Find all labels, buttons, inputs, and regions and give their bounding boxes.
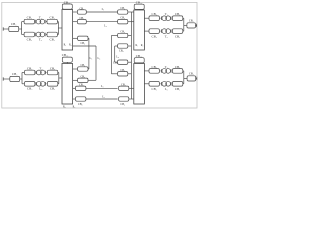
- wire R4 to branch node: [144, 70, 149, 72]
- capacitor CB10 bottom-left: [62, 57, 72, 62]
- capacitor CB6 topleft-1: [77, 10, 86, 14]
- capacitor CB6 botright-1: [119, 86, 129, 90]
- svg-text:L₃: L₃: [101, 84, 104, 88]
- resonator R4 body: [134, 64, 145, 105]
- svg-text:CB₆: CB₆: [120, 103, 125, 106]
- wire R1 tap L1: [73, 11, 78, 13]
- svg-text:L₄: L₄: [102, 95, 105, 99]
- capacitor CB10 top-left: [62, 4, 72, 9]
- wire rung L2 to bus: [128, 21, 134, 23]
- wire top-right branch2 out: [183, 30, 184, 32]
- line L1: [86, 11, 117, 13]
- wire linkB to R3: [73, 79, 78, 81]
- svg-text:CB₄: CB₄: [175, 87, 180, 91]
- capacitor CB3 output bottom: [187, 76, 196, 81]
- line L4: [86, 98, 118, 100]
- wire bottom-right branch1 a: [159, 70, 160, 72]
- capacitor CB9 linkB bottom: [78, 78, 88, 82]
- svg-text:CB₅: CB₅: [50, 66, 55, 70]
- svg-text:CB₁₀: CB₁₀: [136, 54, 142, 58]
- wire to port2: [196, 24, 197, 26]
- svg-text:CB₉: CB₉: [80, 75, 85, 78]
- line L2: [86, 21, 117, 23]
- svg-text:CB₉: CB₉: [80, 64, 85, 67]
- wire node to CB3 out bottom: [184, 77, 187, 79]
- capacitor CB6 botleft-2: [76, 97, 86, 101]
- capacitor CB5s: [172, 69, 182, 74]
- svg-text:L₁: L₁: [102, 7, 105, 11]
- node join bottom-left: [58, 73, 60, 84]
- capacitor CB4e: [25, 82, 35, 87]
- wire bottom-right branch2 b: [171, 83, 174, 85]
- wire top-left branch2 a: [34, 34, 36, 36]
- capacitor CB2c: [149, 29, 159, 34]
- wire bottom-left branch1 in: [22, 72, 25, 74]
- wire top-left branch1 in: [22, 21, 25, 23]
- labels R2 ports: [135, 44, 143, 47]
- wire linkA bottom: [87, 68, 90, 70]
- wire port1: [3, 28, 9, 30]
- wire join to resonator R1: [58, 27, 62, 29]
- resonator R1 body: [62, 10, 73, 51]
- capacitor CB3 input bottom: [10, 76, 20, 81]
- svg-text:R₂: R₂: [69, 44, 72, 47]
- transformer L2br: [161, 81, 171, 86]
- svg-text:CB₉: CB₉: [120, 69, 125, 72]
- wire R1 tap L2: [73, 21, 78, 23]
- wire R1 tap link A: [73, 37, 78, 39]
- capacitor CB4s: [172, 82, 182, 87]
- capacitor CB10 bottom-right: [134, 58, 144, 63]
- svg-text:T₁: T₁: [165, 12, 168, 16]
- wire R4 to branch node 2: [144, 83, 149, 85]
- labels R1 ports: [64, 44, 72, 47]
- line L8 vertical inner: [114, 46, 116, 62]
- svg-text:R₁: R₁: [135, 44, 138, 47]
- svg-text:CB₄: CB₄: [27, 87, 32, 91]
- svg-text:CB₆: CB₆: [120, 7, 125, 10]
- capacitor CB3 output top: [187, 23, 196, 28]
- svg-text:CB₄: CB₄: [50, 37, 55, 41]
- svg-text:CB₃: CB₃: [189, 73, 194, 76]
- svg-text:L₂: L₂: [165, 87, 168, 91]
- wire rung B upper: [115, 45, 118, 47]
- node split bottom-left: [21, 73, 23, 84]
- capacitor CB5 topright-2: [118, 20, 128, 24]
- svg-text:CB₆: CB₆: [79, 7, 84, 10]
- svg-text:CB₁₀: CB₁₀: [62, 53, 68, 57]
- wire R2 to branch node: [144, 17, 149, 19]
- wire rung A lower: [111, 73, 117, 75]
- wire rungA-top to bus: [128, 35, 132, 37]
- svg-text:CB₄: CB₄: [50, 87, 55, 91]
- svg-text:CB₂: CB₂: [175, 12, 180, 16]
- wire port3: [3, 78, 10, 80]
- line L5 vertical linkA: [88, 38, 90, 69]
- transformer T1r: [161, 16, 171, 21]
- svg-text:CB₄: CB₄: [27, 16, 32, 20]
- line L3: [86, 87, 118, 89]
- wire bottom-right branch1 b: [171, 70, 174, 72]
- svg-text:CB₅: CB₅: [79, 17, 84, 20]
- line L6 vertical linkB: [95, 46, 97, 80]
- svg-text:T₁: T₁: [39, 16, 42, 20]
- resonator R2 body: [134, 10, 145, 50]
- svg-text:R₁: R₁: [64, 44, 67, 47]
- wire linkA to R3: [73, 68, 78, 70]
- wire top-left branch2 in: [22, 34, 25, 36]
- node split left: [21, 22, 23, 35]
- svg-text:T₂: T₂: [165, 65, 168, 69]
- transformer T2br: [161, 69, 171, 74]
- svg-text:CB₅: CB₅: [27, 66, 32, 70]
- svg-text:L₂: L₂: [39, 87, 42, 91]
- wire R2 to branch node 2: [144, 30, 149, 32]
- svg-text:CB₅: CB₅: [120, 17, 125, 20]
- labels R3 ports: [63, 105, 75, 108]
- wire input to node: [19, 28, 22, 30]
- capacitor CB2a: [149, 16, 159, 21]
- border frame: [2, 2, 197, 108]
- capacitor CB9 linkA top: [78, 36, 88, 40]
- wire R1 tap link B: [73, 45, 96, 47]
- transformer T2b: [36, 70, 46, 75]
- labels bottom-left branch1: [27, 66, 55, 70]
- bus vertical right: [130, 12, 132, 99]
- svg-text:T₂: T₂: [39, 66, 42, 70]
- svg-text:CB₃: CB₃: [189, 20, 194, 23]
- svg-text:R₃: R₃: [63, 105, 66, 108]
- svg-text:CB₁₀: CB₁₀: [64, 0, 70, 4]
- wire top-right branch1 out: [183, 17, 184, 19]
- svg-text:CB₂: CB₂: [152, 34, 157, 38]
- port 3 terminal: [2, 77, 4, 80]
- svg-text:T₂: T₂: [39, 37, 42, 41]
- svg-text:CB₂: CB₂: [152, 12, 157, 16]
- wire top-right branch1 b: [171, 17, 174, 19]
- wire top-right branch2 a: [159, 30, 160, 32]
- svg-text:L₂: L₂: [104, 24, 107, 28]
- capacitor CB5b: [47, 70, 57, 75]
- capacitor CB8 rungB-top: [118, 44, 128, 48]
- wire bottom-right branch1 out: [183, 70, 184, 72]
- wire bottom-left branch1 out: [58, 72, 59, 74]
- svg-text:CB₅: CB₅: [175, 65, 180, 69]
- svg-text:CB₁₀: CB₁₀: [136, 1, 142, 5]
- svg-text:T₂: T₂: [165, 34, 168, 38]
- svg-text:L₈: L₈: [116, 56, 119, 59]
- svg-text:CB₂: CB₂: [175, 34, 180, 38]
- capacitor CB9 rungA-bot: [118, 72, 128, 76]
- svg-text:R₄: R₄: [73, 105, 76, 108]
- capacitor CB5r: [149, 69, 159, 74]
- node join bottom-right: [183, 71, 185, 84]
- capacitor CB8 rungA-top: [118, 33, 128, 37]
- capacitor CB4d: [47, 32, 57, 37]
- wire linkA top: [87, 37, 90, 39]
- wire R3 tap L3: [73, 87, 76, 89]
- labels bottom-right branch2: [152, 87, 181, 91]
- capacitor CB6 topright-1: [118, 10, 128, 14]
- port 1 terminal: [2, 27, 4, 30]
- wire rungB-bot to bus: [128, 61, 132, 63]
- port 2 terminal: [196, 24, 198, 27]
- svg-text:CB₃: CB₃: [11, 22, 16, 26]
- wire top-left branch1 b: [46, 21, 47, 23]
- wire top-left branch1 out: [57, 21, 58, 23]
- wire bottom-left branch2 out: [58, 83, 59, 85]
- wire bottom-left branch1 b: [46, 72, 47, 74]
- svg-text:CB₅: CB₅: [152, 65, 157, 69]
- wire bottom-left branch2 b: [46, 83, 47, 85]
- wire bottom-right branch2 a: [159, 83, 160, 85]
- wire top-right branch1 a: [159, 17, 160, 19]
- labels top-left branch1: [27, 16, 55, 20]
- wire R3 tap L4: [73, 98, 76, 100]
- wire input3 to node: [20, 78, 22, 80]
- capacitor CB2b: [172, 16, 182, 21]
- capacitor CB4a: [24, 19, 34, 24]
- capacitor CB5a: [25, 70, 35, 75]
- capacitor CB4r: [149, 82, 159, 87]
- wire bottom-right branch2 out: [183, 83, 184, 85]
- svg-text:CB₈: CB₈: [120, 30, 125, 33]
- wire rungB-top to bus: [128, 45, 132, 47]
- wire node to CB3 out: [184, 24, 187, 26]
- svg-text:CB₆: CB₆: [78, 103, 83, 106]
- capacitor CB3 input: [9, 26, 19, 31]
- wire CB10 to R3: [66, 62, 68, 63]
- capacitor CB10 top-right: [134, 4, 144, 9]
- svg-text:CB₆: CB₆: [79, 83, 84, 86]
- labels top-right branch1: [152, 12, 181, 16]
- labels bottom-right branch1: [152, 65, 181, 69]
- svg-text:CB₉: CB₉: [80, 42, 85, 45]
- svg-text:L₆: L₆: [98, 57, 101, 60]
- svg-text:CB₃: CB₃: [12, 72, 17, 76]
- capacitor CB6 botleft-1: [76, 86, 86, 90]
- labels bottom-left branch2: [27, 87, 55, 91]
- capacitor CB2d: [172, 29, 182, 34]
- svg-text:CB₆: CB₆: [121, 83, 126, 86]
- wire rung B lower: [115, 61, 118, 63]
- wire top-left branch2 b: [46, 34, 47, 36]
- wire rungA-bot to bus: [128, 73, 132, 75]
- node join left-top: [57, 22, 59, 35]
- transformer T2: [36, 32, 46, 37]
- capacitor CB4f: [47, 82, 57, 87]
- svg-text:CB₉: CB₉: [113, 61, 118, 64]
- capacitor CB6 botright-2: [119, 97, 129, 101]
- capacitor CB5 topleft-2: [77, 20, 86, 24]
- wire top-left branch1 a: [34, 21, 36, 23]
- wire top-right branch2 b: [171, 30, 174, 32]
- capacitor CB4c: [24, 32, 34, 37]
- wire rung A upper: [111, 35, 117, 37]
- capacitor CB4b: [47, 19, 57, 24]
- capacitor CB9 rungB-bot: [118, 60, 128, 64]
- svg-text:R₂: R₂: [141, 44, 144, 47]
- transformer L2b: [36, 81, 46, 86]
- resonator R3 body: [62, 64, 73, 105]
- wire join to resonator R3: [59, 77, 62, 79]
- labels top-left branch2: [27, 37, 55, 41]
- wire rung L4 to bus: [129, 98, 134, 100]
- line L7 vertical outer: [110, 36, 112, 74]
- wire bottom-left branch2 a: [34, 83, 36, 85]
- wire bottom-left branch2 in: [22, 83, 25, 85]
- wire to port4: [196, 77, 197, 79]
- labels top-right branch2: [152, 34, 181, 38]
- port 4 terminal: [196, 77, 198, 80]
- svg-text:CB₄: CB₄: [50, 16, 55, 20]
- svg-text:L₅: L₅: [90, 57, 93, 60]
- transformer T2r: [161, 29, 171, 34]
- node join top-right: [183, 18, 185, 31]
- svg-text:CB₈: CB₈: [119, 50, 124, 53]
- wire CB10 to R1: [66, 8, 68, 10]
- wire top-left branch2 out: [57, 34, 58, 36]
- svg-text:CB₄: CB₄: [152, 87, 157, 91]
- transformer T1: [36, 19, 46, 24]
- wire linkB bottom: [88, 79, 96, 81]
- svg-text:CB₄: CB₄: [27, 37, 32, 41]
- wire CB10 to R2: [138, 8, 140, 11]
- capacitor CB9 linkA bottom: [78, 67, 88, 71]
- wire rung L3 to bus: [129, 87, 134, 89]
- wire CB10 to R4: [138, 62, 140, 65]
- wire bottom-left branch1 a: [34, 72, 36, 74]
- wire rung L1 to bus: [128, 11, 134, 13]
